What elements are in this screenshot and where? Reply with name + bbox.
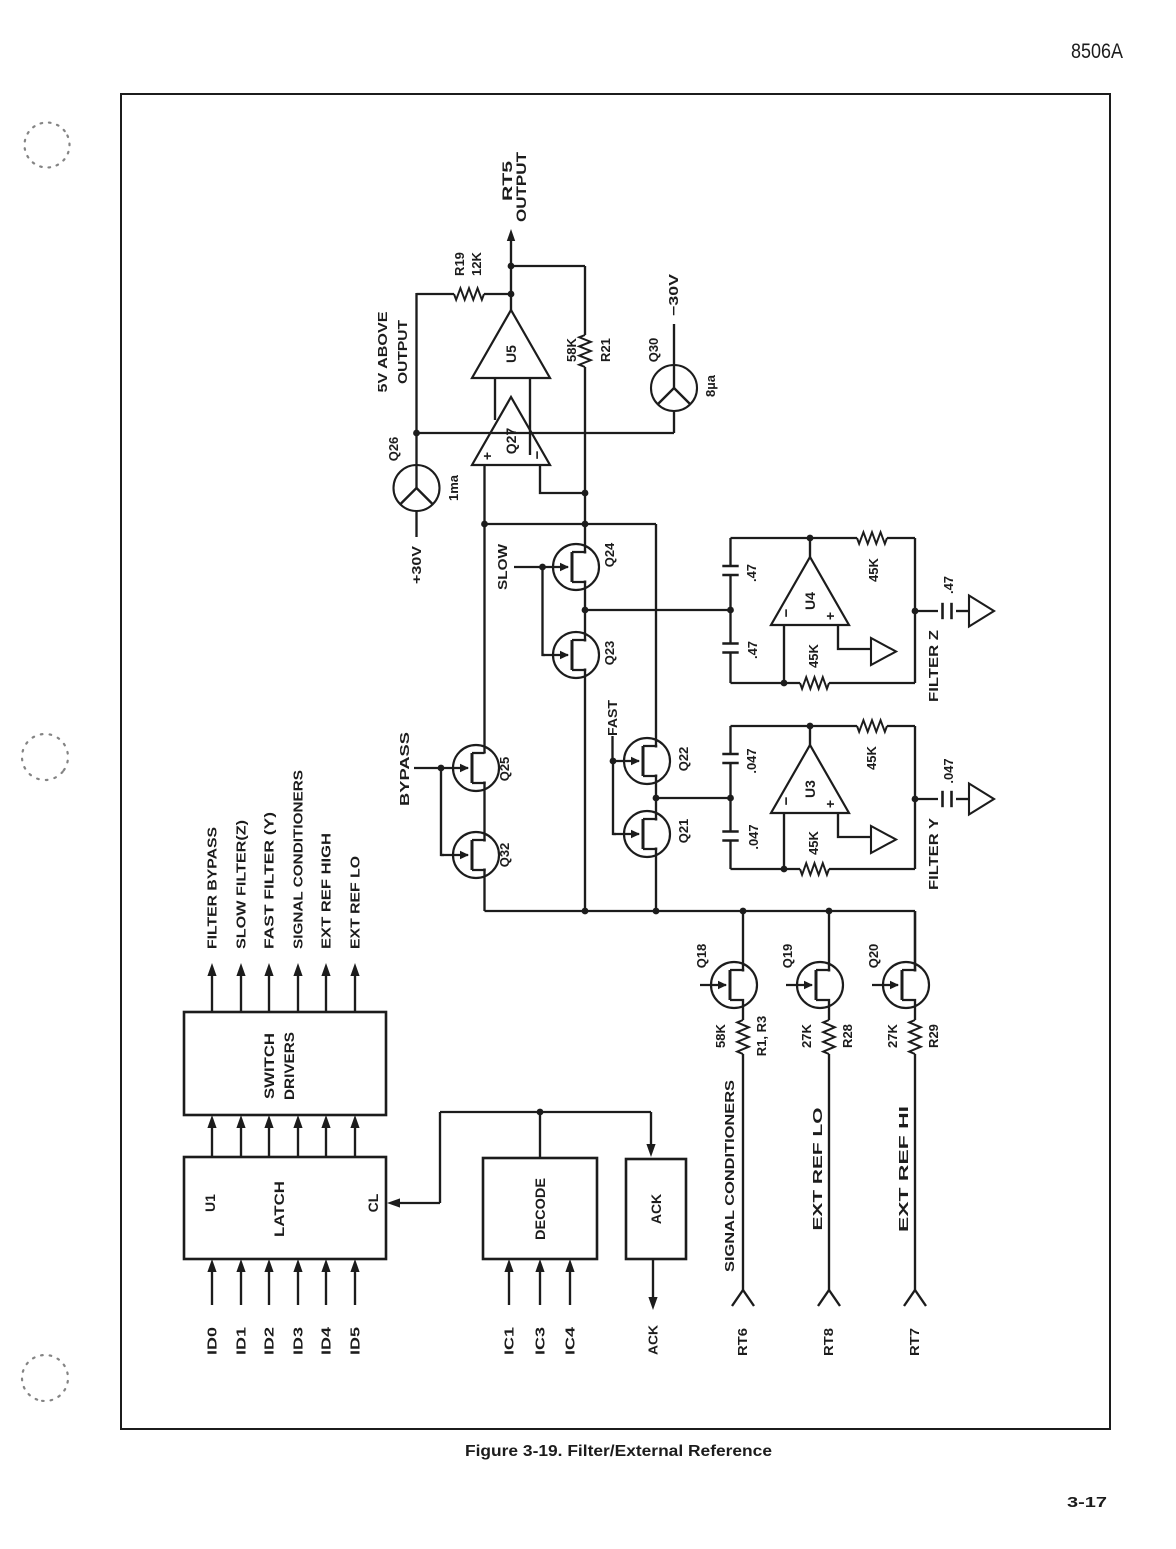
arrow switch driver output 4 [321, 963, 330, 1012]
svg-text:OUTPUT: OUTPUT [395, 320, 410, 384]
arrow switch driver output 1 [236, 963, 245, 1012]
wire U5 lower input lead [529, 378, 531, 455]
svg-text:+: + [822, 800, 838, 808]
arrow latch to switch drivers bit 5 [350, 1115, 359, 1157]
wire U3 non-inverting input lead [838, 813, 871, 837]
arrow switch driver output 0 [207, 963, 216, 1012]
svg-text:IC1: IC1 [502, 1327, 517, 1355]
wire Q27 non-inverting input line to bypass FETs [483, 465, 485, 754]
arrow decode input IC3 [535, 1259, 544, 1305]
node: U4 inverting input junction [781, 680, 788, 687]
svg-text:SIGNAL CONDITIONERS: SIGNAL CONDITIONERS [722, 1080, 737, 1272]
wire -30V lead [673, 324, 675, 365]
svg-text:12K: 12K [469, 251, 484, 275]
wire Q27 inverting input jog [540, 465, 585, 493]
wire U3 inverting input lead [783, 813, 785, 869]
svg-text:FILTER Z: FILTER Z [926, 630, 941, 702]
transistor Q18 [694, 944, 757, 1008]
svg-text:−: − [778, 796, 795, 805]
arrow latch input ID4 [321, 1259, 330, 1305]
block SWITCH DRIVERS [184, 1012, 386, 1115]
svg-text:Figure 3-19. Filter/External R: Figure 3-19. Filter/External Reference [465, 1443, 772, 1460]
op-amp U3 [771, 745, 849, 813]
svg-text:27K: 27K [799, 1023, 814, 1047]
node: U4 output junction [807, 535, 814, 542]
svg-text:1ma: 1ma [446, 474, 461, 501]
arrow latch input ID1 [236, 1259, 245, 1305]
svg-text:R29: R29 [926, 1024, 941, 1048]
node: FAST gate junction [610, 758, 617, 765]
hole punch middle left (dotted tracing) [13, 725, 78, 790]
wire SIGNAL CONDITIONERS line to RT6 [742, 1054, 744, 1290]
output arrow filter Z [969, 596, 994, 627]
transistor Q19 [780, 944, 843, 1008]
svg-text:R19: R19 [452, 252, 467, 276]
svg-text:CL: CL [365, 1193, 381, 1212]
node: bypass line / switch rail junction [481, 521, 488, 528]
terminal RT7 [904, 1290, 926, 1306]
svg-text:SWITCH: SWITCH [261, 1033, 277, 1099]
node: rail/feedback/Q24 drain junction [582, 521, 589, 528]
transistor Q23 [543, 632, 618, 678]
node: Q27 inverting/feedback junction [582, 490, 589, 497]
svg-text:R1, R3: R1, R3 [754, 1016, 769, 1056]
wire filter Z input line [585, 609, 731, 611]
wire U3 output lead [809, 726, 811, 745]
filter Z network top edge with capacitors [722, 538, 738, 683]
svg-text:.047: .047 [744, 748, 759, 773]
filter Z right edge with resistor 45K [731, 532, 916, 582]
wire BYPASS lead [414, 767, 441, 769]
arrow CL into latch [387, 1198, 400, 1207]
svg-text:8µa: 8µa [703, 374, 718, 397]
svg-text:3-17: 3-17 [1067, 1494, 1107, 1511]
node: filter Y output [912, 796, 919, 803]
node: rail/Q19 drain [826, 908, 833, 915]
wire filter Y input line [656, 797, 731, 799]
svg-text:IC4: IC4 [563, 1326, 578, 1355]
svg-text:.47: .47 [941, 576, 956, 594]
svg-text:BYPASS: BYPASS [397, 732, 412, 806]
svg-text:Q32: Q32 [497, 843, 512, 868]
wire Q23 source to signal rail [584, 669, 586, 912]
filter Y left edge with resistor 45K [731, 830, 916, 874]
arrow latch input ID3 [293, 1259, 302, 1305]
svg-text:ID4: ID4 [319, 1326, 334, 1355]
filter Y right edge with resistor 45K [731, 720, 916, 770]
wire Q24 source to node [584, 581, 586, 611]
node: output/R21 junction [508, 263, 515, 270]
svg-text:FAST FILTER (Y): FAST FILTER (Y) [262, 812, 277, 949]
svg-text:−: − [529, 450, 546, 459]
arrow ACK output [648, 1259, 657, 1310]
wire U4 non-inverting input lead [838, 625, 871, 649]
svg-text:EXT REF HI: EXT REF HI [896, 1106, 911, 1232]
wire EXT REF LO line to RT8 [828, 1054, 830, 1290]
output arrow filter Y [969, 784, 994, 815]
svg-text:DECODE: DECODE [532, 1178, 548, 1240]
svg-text:FILTER Y: FILTER Y [926, 818, 941, 890]
buffer follower (filter Y) [871, 826, 896, 853]
arrow latch to switch drivers bit 0 [207, 1115, 216, 1157]
svg-text:R28: R28 [840, 1024, 855, 1048]
wire Q18 drain to rail [742, 911, 744, 972]
wire R19 top node horizontal [415, 293, 417, 433]
wire Q25 source to Q32 drain [483, 782, 485, 842]
label 5V ABOVE OUTPUT [375, 311, 410, 392]
schematic border frame [121, 94, 1110, 1429]
arrow latch to switch drivers bit 3 [293, 1115, 302, 1157]
svg-text:RT8: RT8 [821, 1328, 836, 1356]
filter Y network top edge with capacitors [722, 726, 738, 869]
svg-text:58K: 58K [564, 337, 579, 361]
hole punch bottom left (dotted tracing) [16, 1349, 75, 1408]
svg-text:EXT REF HIGH: EXT REF HIGH [319, 833, 334, 949]
svg-text:5V ABOVE: 5V ABOVE [375, 311, 390, 392]
arrow into ACK [646, 1144, 655, 1157]
filter Y output wire with .047 capacitor [915, 758, 969, 807]
svg-text:.047: .047 [746, 824, 761, 849]
wire Q32 source to signal rail corner [483, 869, 485, 912]
svg-text:+: + [822, 612, 838, 620]
transistor Q20 [866, 944, 929, 1008]
svg-text:8506A: 8506A [1071, 40, 1123, 63]
arrow decode input IC4 [565, 1259, 574, 1305]
block DECODE [483, 1158, 597, 1259]
svg-text:FAST: FAST [605, 700, 620, 736]
node: filter Z input on network [727, 607, 734, 614]
node: Q26 top junction [413, 430, 420, 437]
svg-text:Q23: Q23 [602, 641, 617, 666]
node: U3 output junction [807, 723, 814, 730]
resistor R21 58K [564, 335, 613, 367]
node: output/R19 junction [508, 291, 515, 298]
wire +30V lead [415, 511, 417, 537]
wire U5 upper input lead [494, 378, 496, 420]
wire signal conditioner rail [485, 910, 916, 912]
svg-text:IC3: IC3 [533, 1327, 548, 1355]
wire BYPASS to Q32 gate branch [441, 768, 444, 855]
wire output to feedback [511, 265, 585, 267]
svg-text:EXT REF LO: EXT REF LO [348, 856, 363, 949]
node: BYPASS gate junction [438, 765, 445, 772]
svg-text:RT6: RT6 [735, 1328, 750, 1356]
wire Q19 drain to rail [828, 911, 830, 972]
svg-text:Q21: Q21 [676, 819, 691, 844]
arrow latch input ID2 [264, 1259, 273, 1305]
wire rail corner to Q22 drain [655, 524, 657, 748]
arrow latch to switch drivers bit 4 [321, 1115, 330, 1157]
svg-text:U4: U4 [802, 592, 818, 610]
transistor Q21 [613, 811, 691, 857]
arrow decode input IC1 [504, 1259, 513, 1305]
wire CL net from decode [399, 1112, 651, 1203]
wire SLOW lead [514, 566, 543, 568]
svg-text:−: − [778, 608, 795, 617]
svg-text:45K: 45K [806, 830, 821, 854]
svg-text:ACK: ACK [646, 1324, 661, 1355]
svg-text:45K: 45K [866, 557, 881, 581]
filter Y bottom edge [914, 726, 916, 869]
wire feedback right segment [584, 266, 586, 335]
svg-text:ID3: ID3 [291, 1327, 306, 1355]
terminal RT8 [818, 1290, 840, 1306]
wire U4 output lead [809, 538, 811, 557]
svg-text:OUTPUT: OUTPUT [513, 151, 529, 222]
svg-text:58K: 58K [713, 1023, 728, 1047]
arrow switch driver output 2 [264, 963, 273, 1012]
svg-text:U5: U5 [503, 345, 519, 363]
svg-text:DRIVERS: DRIVERS [281, 1032, 297, 1100]
resistor 27K R28 [799, 1006, 855, 1054]
node: U3 inverting input junction [781, 866, 788, 873]
current source Q30 [646, 338, 718, 411]
wire FAST to Q21 gate branch [613, 761, 616, 834]
node: rail/Q21 source [653, 908, 660, 915]
svg-text:R21: R21 [598, 338, 613, 362]
op-amp U5 output wire to RT5 OUTPUT [507, 229, 515, 310]
arrow latch input ID0 [207, 1259, 216, 1305]
op-amp U5 [472, 310, 550, 378]
op-amp U4 [771, 557, 849, 625]
wire SLOW to Q23 gate branch [543, 567, 546, 655]
op-amp U/Q27 comparator Q27 [472, 397, 550, 465]
svg-text:Q30: Q30 [646, 338, 661, 363]
current source Q26 [386, 437, 461, 511]
svg-text:ID0: ID0 [205, 1327, 220, 1355]
arrow latch input ID5 [350, 1259, 359, 1305]
wire Q30 left lead [673, 411, 675, 433]
arrow switch driver output 5 [350, 963, 359, 1012]
hole punch top left (dotted tracing) [17, 115, 77, 175]
transistor Q32 [441, 832, 512, 878]
filter Z left edge with resistor 45K [731, 643, 916, 688]
wire switch rail vertical [485, 523, 657, 525]
arrow latch to switch drivers bit 1 [236, 1115, 245, 1157]
resistor 58K R1, R3 [713, 1006, 769, 1056]
svg-text:Q26: Q26 [386, 437, 401, 462]
svg-text:RT7: RT7 [907, 1328, 922, 1356]
svg-text:27K: 27K [885, 1023, 900, 1047]
svg-text:45K: 45K [864, 745, 879, 769]
node: filter Y input on network [727, 795, 734, 802]
svg-text:Q27: Q27 [503, 428, 519, 455]
wire Q26 to node [415, 433, 417, 465]
wire Q22 source to node [655, 775, 657, 799]
svg-text:ACK: ACK [648, 1194, 664, 1224]
svg-text:+: + [479, 452, 495, 460]
node: SLOW gate junction [539, 564, 546, 571]
svg-text:U1: U1 [202, 1194, 218, 1212]
svg-text:LATCH: LATCH [271, 1181, 287, 1237]
svg-text:SLOW: SLOW [495, 543, 510, 590]
transistor Q22 [613, 738, 691, 784]
svg-text:EXT REF LO: EXT REF LO [810, 1108, 825, 1231]
node: rail/Q18 drain [740, 908, 747, 915]
wire Q21 drain to node [655, 798, 657, 821]
svg-text:Q19: Q19 [780, 944, 795, 969]
wire Q20 drain to rail [914, 911, 916, 972]
svg-text:+30V: +30V [409, 546, 424, 584]
node: Q24/Q23 midpoint (filter Z input) [582, 607, 589, 614]
transistor Q25 [441, 745, 512, 791]
svg-text:.047: .047 [941, 758, 956, 783]
wire Q21 source to signal rail [655, 848, 657, 912]
wire Q23 drain to node [584, 610, 586, 642]
transistor Q24 [543, 542, 618, 590]
buffer follower (filter Z) [871, 638, 896, 665]
svg-text:ID2: ID2 [262, 1327, 277, 1355]
wire FAST lead [611, 736, 613, 761]
svg-text:SLOW FILTER(Z): SLOW FILTER(Z) [234, 820, 249, 949]
svg-text:.47: .47 [744, 564, 759, 582]
svg-text:−30V: −30V [666, 274, 681, 316]
resistor R19 12K [417, 251, 512, 299]
filter Z output wire with .47 capacitor [915, 576, 969, 619]
filter Z bottom edge [914, 538, 916, 683]
block U1 LATCH [184, 1157, 386, 1259]
node: CL/DECODE junction [537, 1109, 544, 1116]
block ACK [626, 1159, 686, 1259]
wire feedback left segment to Q24 drain [584, 367, 586, 554]
wire rail corner to Q20 drain [914, 911, 916, 972]
svg-text:ID5: ID5 [348, 1327, 363, 1355]
svg-text:ID1: ID1 [234, 1327, 249, 1355]
node: Q22/Q21 midpoint (filter Y input) [653, 795, 660, 802]
arrow switch driver output 3 [293, 963, 302, 1012]
svg-text:SIGNAL CONDITIONERS: SIGNAL CONDITIONERS [291, 770, 306, 949]
terminal RT6 [732, 1290, 754, 1306]
svg-text:U3: U3 [802, 780, 818, 798]
svg-text:Q25: Q25 [497, 757, 512, 782]
svg-text:45K: 45K [806, 643, 821, 667]
label RT5 OUTPUT [499, 151, 529, 222]
svg-text:Q18: Q18 [694, 944, 709, 969]
wire EXT REF HI line to RT7 [914, 1054, 916, 1290]
svg-text:Q22: Q22 [676, 747, 691, 772]
resistor 27K R29 [885, 1006, 941, 1054]
svg-text:.47: .47 [745, 641, 760, 659]
node: rail/Q23 source [582, 908, 589, 915]
svg-text:FILTER BYPASS: FILTER BYPASS [205, 827, 220, 949]
wire bias line vertical (Q26 node down to Q30) [417, 432, 675, 434]
wire U4 inverting input lead [783, 625, 785, 683]
svg-text:Q20: Q20 [866, 944, 881, 969]
arrow latch to switch drivers bit 2 [264, 1115, 273, 1157]
svg-text:Q24: Q24 [602, 542, 617, 567]
node: filter Z output [912, 608, 919, 615]
